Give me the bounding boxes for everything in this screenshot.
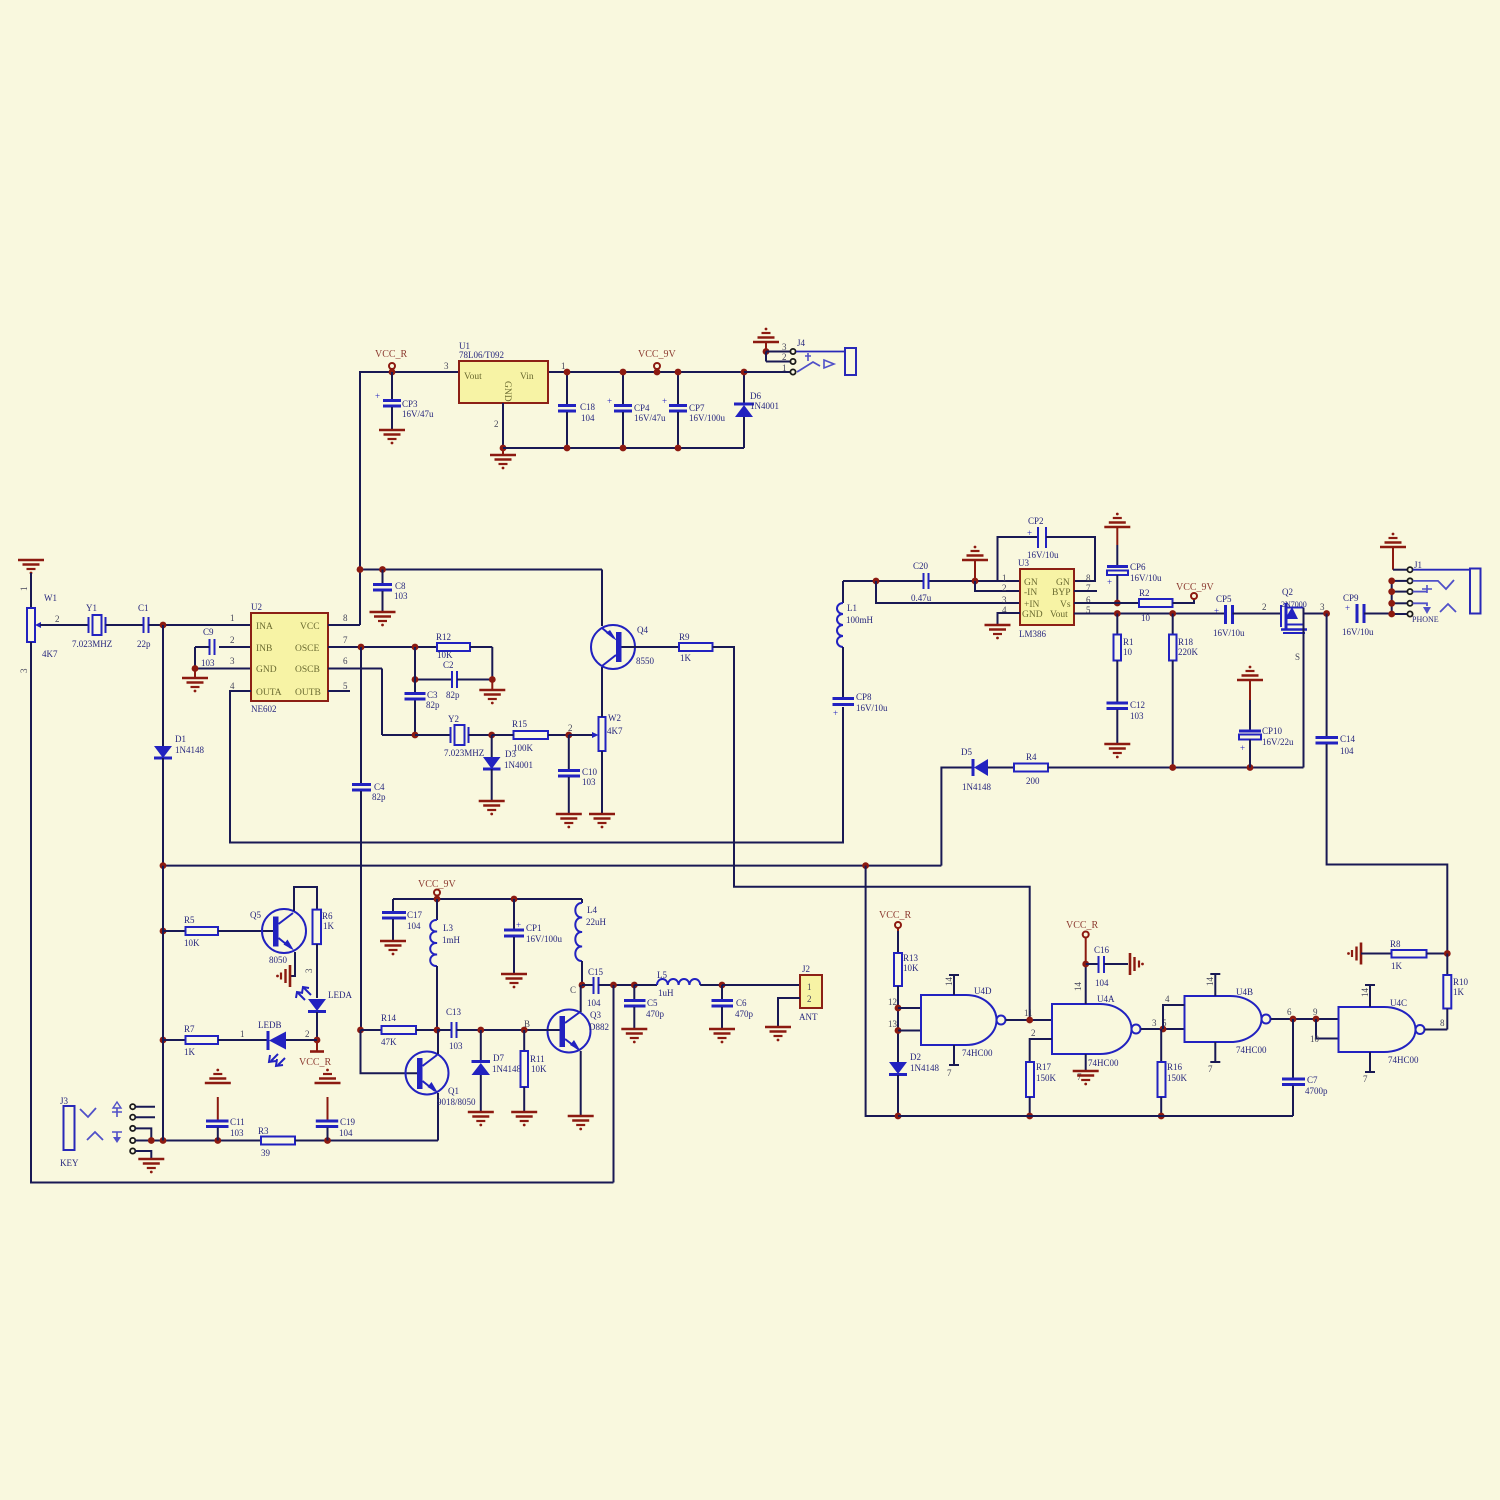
svg-text:CP7: CP7 xyxy=(689,403,705,413)
svg-text:2: 2 xyxy=(230,635,235,645)
resistor R6 1K xyxy=(304,910,335,998)
crystal Y2 7.023MHZ xyxy=(415,714,492,758)
svg-text:9: 9 xyxy=(1313,1007,1318,1017)
svg-text:3: 3 xyxy=(304,968,314,973)
svg-text:10: 10 xyxy=(1123,647,1133,657)
svg-text:13: 13 xyxy=(888,1019,898,1029)
wire gates bottom rail xyxy=(898,1115,1293,1117)
wire U4C output to R10 xyxy=(1425,1018,1448,1030)
inductor L4 22uH xyxy=(575,899,606,985)
svg-text:14: 14 xyxy=(1073,982,1083,992)
node VCC_9V terminal PA xyxy=(418,879,457,899)
LED LEDA xyxy=(296,987,352,1040)
svg-text:1N4148: 1N4148 xyxy=(962,782,991,792)
svg-text:4: 4 xyxy=(230,681,235,691)
svg-text:CP1: CP1 xyxy=(526,923,542,933)
svg-text:C6: C6 xyxy=(736,998,747,1008)
ground under W2 xyxy=(589,814,615,828)
svg-text:U4D: U4D xyxy=(974,986,992,996)
diode D2 1N4148 xyxy=(889,1052,939,1119)
svg-text:2: 2 xyxy=(55,614,60,624)
wire J2 pin2 to ground xyxy=(765,998,800,1041)
svg-text:8: 8 xyxy=(1440,1018,1445,1028)
resistor R18 220K xyxy=(1169,614,1199,768)
svg-text:103: 103 xyxy=(230,1128,244,1138)
svg-text:GN: GN xyxy=(1024,578,1038,588)
svg-text:C10: C10 xyxy=(582,767,598,777)
wire bus1 OUTA xyxy=(230,691,843,843)
svg-text:39: 39 xyxy=(261,1148,271,1158)
svg-text:1mH: 1mH xyxy=(442,935,461,945)
svg-text:R18: R18 xyxy=(1178,637,1194,647)
wire U1 pin2 xyxy=(494,403,506,451)
svg-text:R2: R2 xyxy=(1139,588,1150,598)
svg-text:8: 8 xyxy=(343,613,348,623)
svg-text:U4B: U4B xyxy=(1236,987,1253,997)
svg-text:3: 3 xyxy=(1152,1018,1157,1028)
node VCC_9V terminal xyxy=(638,349,677,375)
capacitor CP2 gain loop xyxy=(998,516,1096,581)
wire U4C pin14 stub xyxy=(1360,985,1375,1007)
svg-text:Y2: Y2 xyxy=(448,714,459,724)
ground above J4 xyxy=(753,328,779,352)
svg-text:1: 1 xyxy=(240,1029,245,1039)
svg-text:14: 14 xyxy=(944,977,954,987)
svg-text:1: 1 xyxy=(807,982,812,992)
svg-text:74HC00: 74HC00 xyxy=(1388,1055,1419,1065)
svg-text:OUTA: OUTA xyxy=(256,688,282,698)
resistor R15 100K xyxy=(492,719,573,753)
svg-text:VCC: VCC xyxy=(300,622,320,632)
resistor R2 xyxy=(1139,588,1173,623)
svg-text:U3: U3 xyxy=(1018,558,1029,568)
svg-text:2: 2 xyxy=(1262,602,1267,612)
svg-text:0.47u: 0.47u xyxy=(911,593,932,603)
svg-text:J3: J3 xyxy=(60,1096,69,1106)
svg-text:6: 6 xyxy=(1287,1007,1292,1017)
svg-text:74HC00: 74HC00 xyxy=(1088,1058,1119,1068)
svg-text:C11: C11 xyxy=(230,1117,245,1127)
svg-text:+: + xyxy=(1214,606,1219,616)
svg-text:+IN: +IN xyxy=(1024,600,1040,610)
ground under D7 xyxy=(468,1112,494,1126)
wire to Q4 emitter xyxy=(601,570,603,627)
svg-text:103: 103 xyxy=(394,591,408,601)
svg-text:8050: 8050 xyxy=(269,955,288,965)
wire U3 pin7 stub xyxy=(1074,590,1097,592)
svg-text:VCC_9V: VCC_9V xyxy=(638,349,677,360)
svg-text:1K: 1K xyxy=(323,921,335,931)
svg-text:104: 104 xyxy=(1340,746,1354,756)
capacitor C5 470p xyxy=(624,982,665,1028)
svg-text:W1: W1 xyxy=(44,593,57,603)
wire U2 pin6 OSCB xyxy=(328,669,418,739)
svg-text:2: 2 xyxy=(807,994,812,1004)
svg-text:VCC_R: VCC_R xyxy=(1066,920,1099,931)
ground at U2 pin3 xyxy=(182,669,208,693)
ground at J3 pin5 xyxy=(138,1159,164,1173)
svg-text:OUTB: OUTB xyxy=(295,688,321,698)
resistor R12 10K xyxy=(436,632,492,680)
svg-text:1: 1 xyxy=(230,613,235,623)
svg-text:150K: 150K xyxy=(1036,1073,1057,1083)
ground under C5 xyxy=(621,1029,647,1043)
svg-text:C18: C18 xyxy=(580,402,596,412)
svg-text:C14: C14 xyxy=(1340,734,1356,744)
svg-text:C12: C12 xyxy=(1130,700,1145,710)
svg-text:NE602: NE602 xyxy=(251,704,277,714)
crystal Y1 7.023MHZ xyxy=(72,603,112,649)
svg-text:C8: C8 xyxy=(395,581,406,591)
svg-text:C1: C1 xyxy=(138,603,149,613)
svg-text:4700p: 4700p xyxy=(1305,1086,1328,1096)
svg-text:L4: L4 xyxy=(587,905,597,915)
wire U4C pin7 stub xyxy=(1363,1052,1375,1084)
svg-text:7.023MHZ: 7.023MHZ xyxy=(444,748,484,758)
svg-text:78L06/T092: 78L06/T092 xyxy=(459,350,504,360)
svg-text:1N4148: 1N4148 xyxy=(910,1063,939,1073)
ground left of R8 xyxy=(1347,943,1361,965)
svg-text:R17: R17 xyxy=(1036,1062,1052,1072)
svg-text:1N4001: 1N4001 xyxy=(750,401,779,411)
ground at Q5 emitter xyxy=(276,952,295,987)
svg-text:CP3: CP3 xyxy=(402,399,418,409)
svg-text:74HC00: 74HC00 xyxy=(1236,1045,1267,1055)
LED LEDB xyxy=(258,1020,317,1066)
svg-text:D882: D882 xyxy=(589,1022,609,1032)
ground under CP3 xyxy=(379,430,405,444)
svg-text:3: 3 xyxy=(230,656,235,666)
inductor L5 1uH xyxy=(634,970,722,998)
diode D6 1N4001 xyxy=(734,369,779,448)
capacitor C6 470p xyxy=(712,982,754,1028)
svg-text:1N4148: 1N4148 xyxy=(175,745,204,755)
svg-text:BYP: BYP xyxy=(1052,588,1070,598)
svg-text:L1: L1 xyxy=(847,603,857,613)
svg-text:2: 2 xyxy=(305,1029,310,1039)
svg-text:R3: R3 xyxy=(258,1126,269,1136)
svg-text:3: 3 xyxy=(1320,602,1325,612)
svg-text:D7: D7 xyxy=(493,1053,504,1063)
svg-text:7: 7 xyxy=(947,1068,952,1078)
svg-text:220K: 220K xyxy=(1178,647,1199,657)
svg-text:C7: C7 xyxy=(1307,1075,1318,1085)
potentiometer W2 4K7 xyxy=(569,667,623,813)
svg-text:Vin: Vin xyxy=(520,372,534,382)
svg-text:J1: J1 xyxy=(1414,560,1422,570)
svg-text:U4C: U4C xyxy=(1390,998,1407,1008)
connector J3 KEY xyxy=(60,1096,155,1168)
svg-text:R13: R13 xyxy=(903,953,919,963)
svg-text:104: 104 xyxy=(1095,978,1109,988)
svg-text:C19: C19 xyxy=(340,1117,356,1127)
svg-text:R11: R11 xyxy=(530,1054,545,1064)
svg-text:LM386: LM386 xyxy=(1019,629,1047,639)
svg-text:200: 200 xyxy=(1026,776,1040,786)
diode D5 1N4148 xyxy=(941,747,1014,866)
svg-text:1K: 1K xyxy=(1453,987,1465,997)
svg-text:104: 104 xyxy=(339,1128,353,1138)
svg-text:16V/10u: 16V/10u xyxy=(1027,550,1059,560)
ground under C6 xyxy=(709,1029,735,1043)
resistor R5 10K xyxy=(160,915,273,948)
svg-text:4: 4 xyxy=(1165,994,1170,1004)
svg-text:D6: D6 xyxy=(750,391,761,401)
svg-text:+: + xyxy=(833,708,838,718)
wire U3 pin3 xyxy=(876,581,1020,603)
svg-text:+: + xyxy=(1240,743,1245,753)
svg-text:10K: 10K xyxy=(903,963,919,973)
gate U4A 74HC00 xyxy=(1030,994,1141,1068)
svg-text:104: 104 xyxy=(581,413,595,423)
svg-text:Q5: Q5 xyxy=(250,910,261,920)
svg-text:2: 2 xyxy=(1031,1028,1036,1038)
wire to antenna connector xyxy=(722,984,800,986)
ground under C17 xyxy=(380,941,406,955)
svg-text:7: 7 xyxy=(343,635,348,645)
svg-text:4K7: 4K7 xyxy=(42,649,58,659)
capacitor C3 82p xyxy=(405,647,441,735)
ground at C2 xyxy=(479,680,505,705)
svg-text:C: C xyxy=(570,985,576,995)
connector J1 PHONE xyxy=(1388,560,1438,624)
svg-text:C9: C9 xyxy=(203,627,214,637)
resistor R8 1K xyxy=(1361,939,1451,971)
wire top rail VCC_9V xyxy=(360,372,789,572)
transistor Q5 8050 xyxy=(250,909,306,965)
svg-text:2: 2 xyxy=(494,419,499,429)
svg-text:1: 1 xyxy=(782,363,787,373)
svg-text:C20: C20 xyxy=(913,561,929,571)
wire bus2 branch down to gates xyxy=(866,866,898,1116)
svg-text:OSCE: OSCE xyxy=(295,644,319,654)
wire U3 pin4 to ground xyxy=(985,613,1021,639)
svg-text:1uH: 1uH xyxy=(658,988,674,998)
connector J4 xyxy=(744,338,806,375)
svg-text:R14: R14 xyxy=(381,1013,397,1023)
svg-text:VCC_9V: VCC_9V xyxy=(1176,582,1215,593)
svg-text:470p: 470p xyxy=(735,1009,754,1019)
svg-text:12: 12 xyxy=(888,997,897,1007)
svg-text:Vout: Vout xyxy=(1050,610,1068,620)
resistor R17 150K xyxy=(1026,1062,1057,1119)
svg-text:D5: D5 xyxy=(961,747,972,757)
ground under D3 xyxy=(479,801,505,815)
capacitor CP8 xyxy=(833,692,889,718)
capacitor CP4 xyxy=(607,369,666,452)
svg-text:+: + xyxy=(662,396,667,406)
wire U4A output xyxy=(1141,1018,1185,1032)
svg-text:74HC00: 74HC00 xyxy=(962,1048,993,1058)
wire key line row xyxy=(135,1137,261,1144)
resistor R7 1K xyxy=(160,1024,268,1057)
svg-text:2: 2 xyxy=(568,723,573,733)
svg-text:R10: R10 xyxy=(1453,977,1469,987)
svg-text:R7: R7 xyxy=(184,1024,195,1034)
svg-text:103: 103 xyxy=(1130,711,1144,721)
svg-text:CP5: CP5 xyxy=(1216,594,1232,604)
connector J2 ANT xyxy=(799,964,822,1022)
svg-text:C17: C17 xyxy=(407,910,423,920)
capacitor CP7 xyxy=(662,369,726,452)
wire U4B pin14 stub xyxy=(1205,974,1220,996)
svg-text:Q1: Q1 xyxy=(448,1086,459,1096)
svg-text:4K7: 4K7 xyxy=(607,726,623,736)
svg-text:R6: R6 xyxy=(322,911,333,921)
wire U4B output xyxy=(1271,1007,1339,1022)
svg-text:W2: W2 xyxy=(608,713,621,723)
capacitor C14 104 xyxy=(1316,614,1448,954)
gate U4D 74HC00 xyxy=(921,975,1006,1078)
svg-text:J4: J4 xyxy=(797,338,806,348)
capacitor C7 4700p xyxy=(1282,1019,1328,1116)
svg-text:14: 14 xyxy=(1360,988,1370,998)
capacitor C15 104 xyxy=(570,967,634,1008)
svg-text:R15: R15 xyxy=(512,719,528,729)
svg-text:+: + xyxy=(607,396,612,406)
svg-text:22p: 22p xyxy=(137,639,151,649)
svg-text:VCC_R: VCC_R xyxy=(375,349,408,360)
svg-text:GND: GND xyxy=(1022,610,1043,620)
capacitor CP1 xyxy=(504,899,563,973)
svg-text:1: 1 xyxy=(1002,573,1007,583)
svg-text:1N4148: 1N4148 xyxy=(492,1064,521,1074)
resistor R14 47K xyxy=(357,1013,437,1047)
transistor Q1 9018/8050 xyxy=(361,1030,477,1141)
node VCC_R terminal gates left xyxy=(879,910,912,931)
IC U2 NE602 xyxy=(230,602,348,714)
resistor R1 10 xyxy=(1114,614,1134,703)
wire U3 pin6 xyxy=(1074,602,1139,604)
capacitor C19 104 xyxy=(315,1069,356,1141)
svg-text:R1: R1 xyxy=(1123,637,1134,647)
svg-text:+: + xyxy=(375,391,380,401)
ground above C20 node xyxy=(962,546,988,581)
svg-text:100K: 100K xyxy=(513,743,534,753)
wire W1 to Y1 xyxy=(40,624,89,626)
svg-text:VCC_R: VCC_R xyxy=(299,1057,332,1068)
svg-text:U4A: U4A xyxy=(1097,994,1115,1004)
wire left frame from W1 down and bottom rail xyxy=(31,642,614,1183)
svg-text:R12: R12 xyxy=(436,632,451,642)
svg-text:KEY: KEY xyxy=(60,1158,79,1168)
wire U4D input stubs xyxy=(888,997,921,1031)
svg-text:CP10: CP10 xyxy=(1262,726,1283,736)
svg-text:Vout: Vout xyxy=(464,372,482,382)
wire U3 pin5 Vout row xyxy=(1074,610,1225,617)
wire C15 feedback to key line xyxy=(610,982,617,1183)
svg-text:Vs: Vs xyxy=(1060,600,1071,610)
resistor R4 200 xyxy=(1014,752,1304,786)
svg-text:7.023MHZ: 7.023MHZ xyxy=(72,639,112,649)
connector J4 jack symbol xyxy=(796,348,856,375)
wire U4C pin10 xyxy=(1310,1019,1339,1044)
svg-text:Q2: Q2 xyxy=(1282,587,1293,597)
wire VCC_9V rail xyxy=(393,896,582,903)
svg-text:S: S xyxy=(1295,652,1300,662)
svg-text:D1: D1 xyxy=(175,734,186,744)
svg-text:C2: C2 xyxy=(443,660,454,670)
svg-text:ANT: ANT xyxy=(799,1012,818,1022)
capacitor C4 82p xyxy=(352,647,386,1030)
svg-text:Q4: Q4 xyxy=(637,625,648,635)
capacitor C18 xyxy=(558,369,596,452)
resistor R9 1K xyxy=(679,632,713,663)
capacitor CP5 xyxy=(1213,594,1281,638)
svg-text:82p: 82p xyxy=(446,690,460,700)
ground under C12 xyxy=(1104,744,1130,758)
svg-text:R9: R9 xyxy=(679,632,690,642)
wire Y1 to C1 xyxy=(106,624,144,626)
svg-text:6: 6 xyxy=(343,656,348,666)
svg-text:INB: INB xyxy=(256,644,272,654)
svg-text:3: 3 xyxy=(444,361,449,371)
svg-text:7: 7 xyxy=(1363,1074,1368,1084)
svg-text:1K: 1K xyxy=(680,653,692,663)
svg-text:1: 1 xyxy=(19,587,29,592)
svg-text:10K: 10K xyxy=(184,938,200,948)
diode D7 1N4148 xyxy=(472,1027,522,1111)
potentiometer W1 4K7 xyxy=(19,587,60,674)
svg-text:16V/47u: 16V/47u xyxy=(634,413,666,423)
ground under C10 xyxy=(556,814,582,828)
capacitor C11 103 xyxy=(205,1069,245,1141)
svg-text:103: 103 xyxy=(582,777,596,787)
svg-text:VCC_R: VCC_R xyxy=(879,910,912,921)
svg-text:8: 8 xyxy=(1086,573,1091,583)
svg-text:R5: R5 xyxy=(184,915,195,925)
svg-text:LEDB: LEDB xyxy=(258,1020,282,1030)
transistor Q3 D882 xyxy=(548,985,610,1115)
wire U2 pin7 OSCE xyxy=(328,644,437,651)
svg-text:16V/47u: 16V/47u xyxy=(402,409,434,419)
svg-text:C4: C4 xyxy=(374,782,385,792)
svg-text:+: + xyxy=(1107,577,1112,587)
svg-text:+: + xyxy=(1027,528,1032,538)
svg-text:R16: R16 xyxy=(1167,1062,1183,1072)
ground under CP1 xyxy=(501,974,527,988)
resistor R11 10K xyxy=(521,1019,548,1111)
svg-text:82p: 82p xyxy=(426,700,440,710)
svg-text:CP9: CP9 xyxy=(1343,593,1359,603)
svg-text:U2: U2 xyxy=(251,602,262,612)
svg-text:7: 7 xyxy=(1208,1064,1213,1074)
capacitor C8 103 xyxy=(373,570,408,612)
svg-text:INA: INA xyxy=(256,622,273,632)
svg-text:103: 103 xyxy=(201,658,215,668)
svg-text:470p: 470p xyxy=(646,1009,665,1019)
svg-text:16V/100u: 16V/100u xyxy=(526,934,563,944)
svg-text:VCC_9V: VCC_9V xyxy=(418,879,457,890)
svg-text:3: 3 xyxy=(19,668,29,673)
capacitor C9 103 xyxy=(195,627,251,669)
svg-text:16V/22u: 16V/22u xyxy=(1262,737,1294,747)
wire Q5 collector to R6 xyxy=(294,887,317,911)
wire bottom rail of power section xyxy=(503,447,744,449)
wire R9 to U4D output xyxy=(713,647,1030,1020)
svg-text:Y1: Y1 xyxy=(86,603,97,613)
ground under Q3 xyxy=(568,1116,594,1130)
svg-text:10K: 10K xyxy=(531,1064,547,1074)
capacitor C17 104 xyxy=(382,899,423,940)
svg-text:OSCB: OSCB xyxy=(295,665,320,675)
gate U4C 74HC00 xyxy=(1339,998,1425,1065)
wire C1 to U2 pin1 xyxy=(149,613,252,628)
svg-text:16V/10u: 16V/10u xyxy=(1342,627,1374,637)
capacitor CP3 xyxy=(375,372,434,429)
svg-text:CP2: CP2 xyxy=(1028,516,1044,526)
svg-text:47K: 47K xyxy=(381,1037,397,1047)
